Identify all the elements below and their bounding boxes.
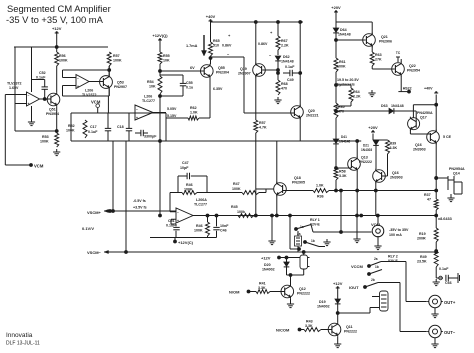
svg-text:4.7K: 4.7K xyxy=(259,126,267,130)
wire A4 inputs xyxy=(170,193,176,225)
transistor Q22 PN2954 xyxy=(392,62,420,77)
power +40V right xyxy=(424,87,438,94)
svg-text:3.3K: 3.3K xyxy=(390,146,398,150)
label HS22 xyxy=(403,87,412,91)
svg-text:0.1uF: 0.1uF xyxy=(439,267,449,271)
switch 2a box xyxy=(295,231,302,252)
label IOUT xyxy=(349,285,366,290)
svg-text:0.1uF: 0.1uF xyxy=(285,65,295,69)
wire Q51 emitter xyxy=(55,107,58,133)
svg-text:510: 510 xyxy=(213,44,219,48)
transistor Q51 PN3904 xyxy=(46,92,60,116)
svg-text:R63: R63 xyxy=(375,53,382,57)
resistor R57 xyxy=(107,52,122,66)
wire +12V drop xyxy=(55,33,58,52)
svg-text:−: − xyxy=(136,107,138,111)
capacitor C46 xyxy=(213,214,229,237)
transistor Q21 PN2906 xyxy=(363,33,392,48)
svg-text:PN4250A: PN4250A xyxy=(417,111,433,115)
svg-text:+12V: +12V xyxy=(52,26,62,31)
svg-text:PN2906: PN2906 xyxy=(379,40,392,44)
wire +12VQ drop xyxy=(159,40,161,52)
label fs xyxy=(133,199,147,210)
svg-text:1.0K: 1.0K xyxy=(316,184,324,188)
svg-text:0.1u: 0.1u xyxy=(186,86,193,90)
svg-text:100K: 100K xyxy=(66,129,75,133)
ground U50 xyxy=(28,119,35,126)
wire R36 left xyxy=(283,190,313,192)
power +12V relay xyxy=(261,256,280,261)
label N/COM xyxy=(276,328,301,333)
transistor Q12 PN2222 xyxy=(281,284,310,299)
diode D41 xyxy=(333,135,350,144)
resistor R37 xyxy=(424,193,438,210)
resistor R60 xyxy=(334,103,345,118)
svg-text:R62: R62 xyxy=(190,106,197,110)
svg-text:Q53: Q53 xyxy=(117,81,124,85)
wire Q13 bot xyxy=(356,171,359,216)
resistor R63 xyxy=(370,52,382,66)
svg-text:1.7mA: 1.7mA xyxy=(186,44,198,48)
label RLY1 xyxy=(310,218,320,227)
wire Q16 emitter xyxy=(435,143,438,199)
wire A2 out xyxy=(89,81,103,83)
svg-text:Q14: Q14 xyxy=(453,172,460,176)
wire Q14 link xyxy=(435,177,444,180)
resistor R58 xyxy=(334,168,347,180)
capacitor C17 xyxy=(88,113,111,141)
wire R57b bot xyxy=(255,133,257,141)
capacitor C66 xyxy=(439,267,456,285)
svg-text:N/COM: N/COM xyxy=(276,328,290,333)
resistor R44 xyxy=(194,214,210,237)
wire mid vert2 xyxy=(255,189,257,216)
transistor Q53 PN2907 xyxy=(100,75,127,90)
svg-text:−: − xyxy=(177,210,179,214)
svg-text:RLY 2: RLY 2 xyxy=(388,255,398,259)
svg-text:C51: C51 xyxy=(168,219,175,223)
capacitor C55 xyxy=(160,75,193,96)
svg-text:-35V to 35V: -35V to 35V xyxy=(389,228,409,232)
wire Q18 vert xyxy=(276,141,278,216)
wire +20V drop xyxy=(335,12,337,28)
svg-text:N/OM: N/OM xyxy=(229,290,240,295)
svg-text:D63: D63 xyxy=(381,104,388,108)
resistor R65 xyxy=(209,33,232,57)
svg-text:VCCM: VCCM xyxy=(351,264,363,269)
svg-text:19.5 to 20.5V: 19.5 to 20.5V xyxy=(337,78,359,82)
svg-text:Q16: Q16 xyxy=(392,171,399,175)
resistor R19 xyxy=(417,228,438,242)
wire fb loop A2 xyxy=(63,69,111,78)
svg-text:2.2K: 2.2K xyxy=(353,95,361,99)
wire R49 bot xyxy=(435,267,437,278)
wire Q19 collector xyxy=(255,22,257,64)
op-amp U52 TLV2372 xyxy=(76,75,97,98)
wire feedback to R53 xyxy=(15,130,57,132)
ground sw left xyxy=(268,238,275,245)
svg-text:1a: 1a xyxy=(300,225,304,229)
wire R19 bot xyxy=(435,242,438,252)
wire R61 bot xyxy=(335,72,337,103)
svg-text:R39: R39 xyxy=(390,142,397,146)
svg-text:Q20: Q20 xyxy=(308,109,315,113)
svg-text:Q13: Q13 xyxy=(361,156,368,160)
resistor R68 xyxy=(276,80,288,95)
svg-text:5 CE: 5 CE xyxy=(443,135,452,139)
svg-text:470: 470 xyxy=(281,87,287,91)
svg-text:PN2222: PN2222 xyxy=(344,330,357,334)
svg-text:Segmented CM Amplifier: Segmented CM Amplifier xyxy=(7,3,111,14)
svg-text:TC: TC xyxy=(396,51,401,55)
svg-text:Q16: Q16 xyxy=(415,143,422,147)
wire D62 bot xyxy=(277,61,280,80)
svg-text:RLY 1: RLY 1 xyxy=(310,218,320,222)
wire R54R55 xyxy=(159,64,161,76)
switch 2b rly2 xyxy=(365,278,378,287)
wire box right xyxy=(165,113,167,141)
wire R37 ends xyxy=(435,210,437,228)
svg-text:C55: C55 xyxy=(186,81,193,85)
svg-text:10K: 10K xyxy=(149,85,156,89)
svg-text:0.1V/V: 0.1V/V xyxy=(82,226,94,231)
transistor Q15 2N3903 xyxy=(373,169,403,184)
wire 6V node xyxy=(159,66,205,72)
ground R64 xyxy=(368,90,375,97)
resistor R56 xyxy=(55,52,68,66)
ground R49 xyxy=(433,279,440,286)
svg-text:+12V: +12V xyxy=(333,281,343,286)
resistor R49 xyxy=(417,251,438,267)
svg-text:PN2954: PN2954 xyxy=(407,69,420,73)
svg-text:R67: R67 xyxy=(281,39,288,43)
wire left vert inv xyxy=(5,95,26,166)
diode D62 xyxy=(275,55,293,64)
svg-text:TLV2372: TLV2372 xyxy=(7,82,22,86)
wire Q13 top xyxy=(356,140,359,158)
wire R65 top xyxy=(210,21,212,42)
author text xyxy=(6,332,40,347)
wire C66 row xyxy=(436,276,443,280)
resistor R43 xyxy=(304,320,321,332)
svg-text:R56: R56 xyxy=(59,54,66,58)
svg-text:R64: R64 xyxy=(353,90,360,94)
wire rail3 xyxy=(336,21,372,23)
wire Q21 top xyxy=(371,22,373,34)
wire NCOM xyxy=(300,329,305,331)
svg-text:+20V: +20V xyxy=(368,125,378,130)
wire VSCM- line xyxy=(104,251,438,254)
wire Q22 bot xyxy=(398,76,410,93)
resistor R67 xyxy=(276,36,289,50)
svg-text:+3.5V fs: +3.5V fs xyxy=(133,206,147,210)
wire rly2 to out+ xyxy=(381,262,427,302)
svg-text:2a: 2a xyxy=(374,257,378,261)
wire sw left stub xyxy=(271,214,274,238)
wire Q12 col xyxy=(289,274,292,285)
wire R60 bot xyxy=(335,110,338,139)
svg-text:+20V: +20V xyxy=(331,5,341,10)
svg-text:R57: R57 xyxy=(259,121,266,125)
svg-text:+40V: +40V xyxy=(424,87,433,91)
svg-text:PN2222: PN2222 xyxy=(359,160,372,164)
diode D19 xyxy=(317,299,341,309)
svg-text:1b: 1b xyxy=(311,239,315,243)
label 0.86V2 xyxy=(258,42,268,46)
wire VOM stub xyxy=(377,216,379,225)
wire Q53 collector xyxy=(108,66,110,76)
switch 1b rly2 xyxy=(368,265,382,275)
terminal VSCM- xyxy=(87,250,127,255)
svg-text:Q19: Q19 xyxy=(240,67,247,71)
label RLY2 xyxy=(388,255,398,264)
wire Q18 col xyxy=(256,141,274,189)
current arrow 1.7mA xyxy=(186,35,207,56)
svg-text:10nF: 10nF xyxy=(220,224,229,228)
ground VOM xyxy=(374,243,381,250)
power +12V xyxy=(52,26,62,33)
svg-text:PN2954A: PN2954A xyxy=(449,167,465,171)
svg-text:Q17: Q17 xyxy=(420,116,427,120)
label x8.6433 xyxy=(438,217,452,221)
svg-text:Q21: Q21 xyxy=(381,35,388,39)
svg-text:5.15V: 5.15V xyxy=(167,114,177,118)
svg-text:6.35V: 6.35V xyxy=(213,87,223,91)
svg-text:R55: R55 xyxy=(163,54,170,58)
wire Q21 base xyxy=(335,39,366,42)
ground OUT+ xyxy=(431,308,438,318)
wire R64 bot xyxy=(336,102,351,106)
svg-text:C17: C17 xyxy=(90,125,97,129)
svg-text:-35 V to +35 V, 100 mA: -35 V to +35 V, 100 mA xyxy=(6,14,104,25)
terminal VCM xyxy=(91,100,101,114)
ground Q12 xyxy=(287,301,294,308)
svg-text:R65: R65 xyxy=(213,39,220,43)
wire D41 bot xyxy=(335,144,338,169)
label 5.05V xyxy=(167,107,177,118)
wire R57 bot xyxy=(108,66,110,76)
svg-text:R46: R46 xyxy=(186,183,193,187)
svg-text:R36: R36 xyxy=(317,195,324,199)
wire D19 bot xyxy=(336,304,339,322)
svg-text:TLC277: TLC277 xyxy=(194,203,207,207)
power +40V R65 xyxy=(206,14,216,21)
svg-text:D21: D21 xyxy=(363,144,369,148)
wire R67 top xyxy=(270,22,278,36)
wire +12V row xyxy=(279,257,300,259)
power +20V mid xyxy=(368,125,378,132)
wire Q51 collector xyxy=(56,66,58,92)
wire D61 bot xyxy=(375,146,377,170)
wire Q53 emitter xyxy=(108,89,110,97)
svg-text:C66: C66 xyxy=(445,281,452,285)
svg-text:100K: 100K xyxy=(59,59,68,63)
transistor Q20 2N2221 xyxy=(291,105,319,120)
svg-text:-0.5V fs: -0.5V fs xyxy=(133,199,146,203)
diode D20 xyxy=(262,256,289,275)
svg-text:27K: 27K xyxy=(375,58,382,62)
svg-text:D64: D64 xyxy=(340,28,347,32)
switch 2a rly2 xyxy=(369,257,381,266)
svg-text:R53: R53 xyxy=(42,135,49,139)
wire left vert plus xyxy=(15,47,27,131)
power +12V Q11 xyxy=(333,281,343,288)
wire box left xyxy=(70,113,72,141)
svg-text:C52: C52 xyxy=(39,71,46,75)
svg-text:Q55: Q55 xyxy=(218,66,225,70)
svg-text:100K: 100K xyxy=(184,188,193,192)
svg-text:Q22: Q22 xyxy=(409,64,416,68)
wire R54 bot xyxy=(159,94,162,216)
svg-text:PN2905: PN2905 xyxy=(292,181,305,185)
label VCCM xyxy=(351,264,370,269)
wire Q12 em xyxy=(290,299,292,301)
transistor Q19 2N2907 xyxy=(238,63,265,78)
wire +40V right drop xyxy=(413,95,437,132)
wire A3 out xyxy=(153,112,166,114)
transistor Q55 PN2304 xyxy=(201,64,230,79)
svg-text:R41: R41 xyxy=(259,282,266,286)
svg-text:Q18: Q18 xyxy=(294,176,301,180)
svg-text:PN2907: PN2907 xyxy=(114,85,127,89)
svg-text:R19: R19 xyxy=(419,232,426,236)
svg-text:0.86V: 0.86V xyxy=(258,42,268,46)
svg-text:200R: 200R xyxy=(417,237,426,241)
wire Q53e to box xyxy=(107,96,109,113)
svg-text:R45: R45 xyxy=(231,205,238,209)
transistor Q14 FET xyxy=(444,167,465,194)
wire Q17 emitter xyxy=(410,130,430,135)
svg-text:23.5K: 23.5K xyxy=(417,260,427,264)
label hysteresis xyxy=(337,78,359,87)
resistor R53 xyxy=(40,133,59,147)
svg-text:+12V: +12V xyxy=(261,256,271,261)
title text xyxy=(6,3,111,25)
wire R38 bot xyxy=(382,154,388,176)
wire R67 bot xyxy=(269,50,278,58)
wire drop x113 xyxy=(112,141,115,212)
svg-text:1N4148: 1N4148 xyxy=(281,60,294,64)
op-amp U50 TLV2372 xyxy=(7,82,40,107)
wire top rail xyxy=(14,46,108,48)
label +12V(C) xyxy=(174,238,194,246)
svg-text:L206A: L206A xyxy=(196,198,207,202)
wire R36 right xyxy=(329,189,438,231)
svg-text:0.86V: 0.86V xyxy=(222,44,232,48)
svg-text:100K: 100K xyxy=(232,187,241,191)
wire rly2 to out- xyxy=(378,283,427,332)
svg-text:Innovatia: Innovatia xyxy=(6,332,33,339)
wire coil bot xyxy=(287,269,304,275)
resistor R47 xyxy=(232,182,259,195)
ground R53 xyxy=(53,149,60,156)
svg-text:100k: 100k xyxy=(237,210,245,214)
svg-text:C18: C18 xyxy=(117,125,124,129)
svg-text:2N3903: 2N3903 xyxy=(390,176,403,180)
capacitor C49 xyxy=(277,65,302,82)
capacitor C18 xyxy=(117,113,132,141)
wire Q19e down xyxy=(255,113,257,120)
svg-text:1b: 1b xyxy=(375,265,379,269)
diode D63 xyxy=(381,104,404,114)
wire R43 right xyxy=(321,329,332,331)
switch 1a xyxy=(295,225,311,231)
svg-text:+: + xyxy=(136,116,138,120)
svg-text:R49: R49 xyxy=(420,255,427,259)
wire U50 out xyxy=(40,98,51,100)
svg-text:1N4148: 1N4148 xyxy=(339,140,350,144)
wire R46 ends xyxy=(170,192,242,194)
wire R65 bot xyxy=(209,56,212,64)
svg-text:−: − xyxy=(28,94,30,98)
ground sw right xyxy=(323,239,330,246)
svg-text:R46: R46 xyxy=(196,224,203,228)
svg-text:R57: R57 xyxy=(113,54,120,58)
ground OUT- xyxy=(431,338,438,348)
resistor R55 xyxy=(158,52,170,64)
op-amp U54 TLC277 xyxy=(176,198,207,223)
resistor R41 xyxy=(256,282,270,294)
label -35V xyxy=(389,228,409,237)
capacitor C19 3300pF xyxy=(135,130,157,139)
svg-text:VCM: VCM xyxy=(91,100,101,105)
svg-text:1N4002: 1N4002 xyxy=(317,305,330,309)
wire NOM xyxy=(249,291,257,293)
relay coil K1 xyxy=(300,252,310,270)
svg-text:Q12: Q12 xyxy=(299,287,306,291)
svg-text:C47: C47 xyxy=(182,161,189,165)
wire drop x126 xyxy=(125,141,127,252)
resistor R52 xyxy=(66,120,87,138)
svg-text:100K: 100K xyxy=(113,59,122,63)
svg-text:C46: C46 xyxy=(220,229,227,233)
svg-text:+: + xyxy=(77,84,79,88)
svg-text:2b: 2b xyxy=(371,278,375,282)
ground Q11 xyxy=(334,341,341,348)
svg-text:0.1uF: 0.1uF xyxy=(88,130,98,134)
wire R64 top xyxy=(335,84,351,88)
svg-text:VSCM+: VSCM+ xyxy=(87,210,102,215)
connector VOM xyxy=(371,222,384,237)
node VCM lower xyxy=(5,164,44,169)
wire sw bot xyxy=(290,248,300,251)
wire Q11 col branch xyxy=(338,308,378,314)
power +20V main xyxy=(331,5,341,12)
wire +20V jog xyxy=(373,134,388,141)
label 0.1V/V xyxy=(82,226,94,231)
svg-text:R54: R54 xyxy=(147,80,154,84)
wire VSCM+ line xyxy=(104,210,176,212)
wire R58 bot xyxy=(335,180,338,192)
svg-text:+12V(C): +12V(C) xyxy=(178,240,194,245)
svg-text:100K: 100K xyxy=(40,140,49,144)
resistor R46 xyxy=(182,183,197,195)
svg-text:R37: R37 xyxy=(424,193,431,197)
svg-text:L206: L206 xyxy=(144,95,152,99)
transistor Q17 PN2222 xyxy=(408,111,433,131)
wire sw2 out xyxy=(319,246,325,248)
svg-text:100 mA: 100 mA xyxy=(389,233,402,237)
wire mid bus xyxy=(159,214,438,217)
svg-text:R47: R47 xyxy=(233,182,240,186)
svg-text:10K: 10K xyxy=(163,59,170,63)
wire mid left xyxy=(211,57,295,113)
svg-text:D19: D19 xyxy=(319,300,326,304)
wire Q21 emitter xyxy=(371,46,373,52)
svg-text:VCM: VCM xyxy=(34,164,44,169)
ground R68 xyxy=(274,97,281,104)
capacitor C51 xyxy=(166,219,180,238)
